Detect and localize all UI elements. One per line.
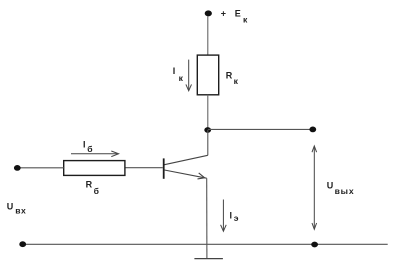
current arrow Ib xyxy=(71,151,119,157)
svg-text:U: U xyxy=(7,202,14,212)
resistor Rb xyxy=(64,161,125,176)
label Rb xyxy=(86,179,99,195)
svg-text:к: к xyxy=(243,15,248,25)
wire collector node to output terminal xyxy=(208,128,311,130)
output voltage double arrow Uvyh xyxy=(312,146,317,229)
svg-text:э: э xyxy=(234,213,239,223)
svg-text:+: + xyxy=(221,9,226,19)
svg-text:R: R xyxy=(226,70,233,80)
svg-text:б: б xyxy=(94,186,99,196)
label Uvx xyxy=(7,202,26,216)
label Uvyh xyxy=(327,180,355,195)
transistor VT emitter lead with arrow xyxy=(164,170,206,179)
label Ie xyxy=(230,211,239,224)
svg-text:к: к xyxy=(234,76,239,86)
label Ib xyxy=(83,140,93,155)
transistor VT base bar xyxy=(163,158,165,178)
bottom common rail wire xyxy=(26,243,388,245)
wire supply to resistor Rk xyxy=(207,16,209,55)
transistor VT collector lead xyxy=(164,155,207,164)
svg-text:E: E xyxy=(235,8,241,18)
node +Ek supply terminal dot xyxy=(205,10,212,16)
svg-text:б: б xyxy=(87,144,92,154)
svg-text:U: U xyxy=(327,180,334,190)
svg-text:к: к xyxy=(179,73,184,83)
wire collector node down xyxy=(207,130,209,155)
ground bar xyxy=(194,258,223,260)
svg-text:I: I xyxy=(230,211,233,221)
wire base to transistor xyxy=(125,167,163,169)
bottom left terminal dot xyxy=(19,241,26,247)
current arrow Ie xyxy=(221,200,227,232)
wire Rk to collector node xyxy=(207,95,209,130)
label Ik xyxy=(173,66,184,83)
svg-text:I: I xyxy=(173,66,176,76)
resistor Rk xyxy=(197,55,218,95)
label Rk xyxy=(226,70,239,85)
svg-text:вх: вх xyxy=(15,205,26,215)
junction collector node dot xyxy=(204,127,211,133)
svg-text:R: R xyxy=(86,179,93,189)
bottom right junction dot xyxy=(311,242,318,248)
output terminal dot xyxy=(309,126,316,132)
input terminal dot xyxy=(14,165,21,171)
current arrow Ik xyxy=(186,60,192,91)
svg-text:вых: вых xyxy=(335,186,355,196)
label + Ek xyxy=(221,8,248,24)
wire input to Rb xyxy=(20,167,63,169)
svg-text:I: I xyxy=(83,140,86,150)
wire emitter down through rail to ground xyxy=(206,178,208,258)
